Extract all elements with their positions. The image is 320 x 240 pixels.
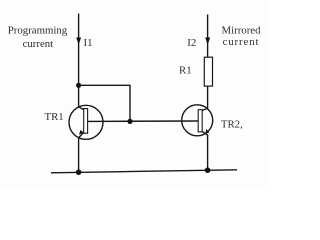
svg-text:R1: R1: [179, 65, 192, 77]
svg-text:current: current: [23, 38, 54, 50]
svg-text:current: current: [223, 36, 260, 48]
svg-text:I2: I2: [187, 37, 196, 49]
svg-text:I1: I1: [84, 37, 93, 49]
svg-text:Mirrored: Mirrored: [222, 24, 262, 36]
svg-text:Programming: Programming: [8, 25, 68, 37]
svg-text:TR1: TR1: [45, 111, 64, 123]
svg-text:TR2,: TR2,: [221, 119, 243, 131]
